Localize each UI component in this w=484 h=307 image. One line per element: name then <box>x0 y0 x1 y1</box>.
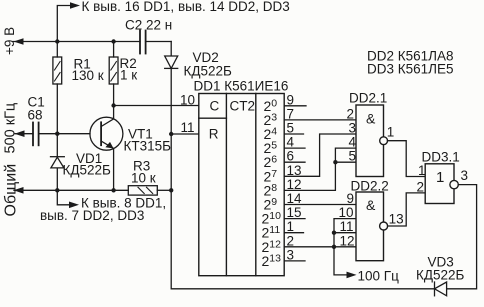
transistor VT1 <box>90 106 123 191</box>
wire DD3.1 output down to bottom rail <box>447 185 477 289</box>
node arrow to DD supply <box>70 2 80 9</box>
node junction VD2-R input <box>169 132 173 136</box>
svg-text:1: 1 <box>287 219 295 234</box>
pin labels DD2.1 <box>347 106 395 163</box>
capacitor C2 <box>140 31 171 54</box>
svg-text:&: & <box>366 111 376 127</box>
wire 2^6 pin6 stub <box>284 161 305 163</box>
svg-text:1: 1 <box>418 163 426 178</box>
svg-text:КД522Б: КД522Б <box>184 64 233 79</box>
svg-text:Общий: Общий <box>3 164 20 217</box>
svg-text:130 к: 130 к <box>72 68 104 83</box>
wire to DD1 pin 10 <box>114 105 199 107</box>
svg-text:11: 11 <box>340 219 354 234</box>
wire 2^5 pin4 stub <box>284 147 305 149</box>
capacitor C1 <box>15 123 90 146</box>
svg-text:4: 4 <box>287 135 295 150</box>
wire down to bottom rail <box>171 190 434 288</box>
wire 2^12 pin2 to DD2.2 pins 10,11,12 <box>284 246 356 248</box>
svg-text:12: 12 <box>287 177 302 192</box>
svg-text:2: 2 <box>417 179 425 194</box>
svg-text:КД522Б: КД522Б <box>63 163 112 178</box>
wire 2^8 pin12 to DD2.1 pins 4,5 <box>284 148 356 190</box>
svg-text:100 Гц: 100 Гц <box>358 269 400 284</box>
svg-text:+9 В: +9 В <box>2 27 17 55</box>
svg-text:68: 68 <box>28 108 43 123</box>
node ground arrow <box>14 187 24 194</box>
svg-text:К выв. 16 DD1, выв. 14 DD2, DD: К выв. 16 DD1, выв. 14 DD2, DD3 <box>82 0 290 14</box>
svg-text:CT2: CT2 <box>230 99 256 114</box>
node arrow 100Hz <box>347 272 357 279</box>
svg-text:DD2.1: DD2.1 <box>349 91 387 106</box>
svg-text:3: 3 <box>349 121 357 136</box>
svg-text:DD3 К561ЛЕ5: DD3 К561ЛЕ5 <box>367 61 454 76</box>
wire branch to pin8 label <box>57 190 69 205</box>
svg-text:6: 6 <box>287 149 295 164</box>
gate DD2.2 (4-input NAND) <box>356 192 388 261</box>
node junction DD2.2 pin11 <box>332 231 336 235</box>
wire 2^9 pin14 to DD2.2 pin9 <box>284 204 356 206</box>
svg-text:1: 1 <box>436 169 444 186</box>
svg-text:1 к: 1 к <box>120 68 137 83</box>
wire DD2.2 output to DD3.1 pin2 <box>388 193 426 226</box>
svg-text:10: 10 <box>339 205 354 220</box>
svg-text:10: 10 <box>180 93 195 108</box>
svg-text:DD3.1: DD3.1 <box>422 150 460 165</box>
svg-text:7: 7 <box>287 106 295 121</box>
svg-text:DD1 К561ИЕ16: DD1 К561ИЕ16 <box>194 79 289 94</box>
node 500kHz arrow <box>15 130 25 137</box>
svg-text:КТ315Б: КТ315Б <box>124 139 172 154</box>
wire +9V rail <box>13 41 140 43</box>
wire DD1 output stubs and routes <box>284 106 356 278</box>
svg-text:2: 2 <box>287 233 295 248</box>
resistor R1 <box>53 42 62 134</box>
svg-text:3: 3 <box>287 247 295 262</box>
resistor R3 <box>128 186 171 195</box>
node junction emitter <box>111 188 115 192</box>
wire 2^4 pin5 stub <box>284 133 303 135</box>
node junction R3 right <box>169 188 173 192</box>
svg-text:1: 1 <box>387 125 395 140</box>
wire 100Hz tap <box>334 247 348 275</box>
gate DD3.1 (NOR as inverter) <box>425 164 458 204</box>
node junction VD1 bottom <box>55 188 59 192</box>
pin output power-of-two labels DD1 <box>262 97 282 269</box>
svg-text:13: 13 <box>287 163 302 178</box>
wire branch to pin16 label <box>57 6 71 42</box>
gate DD2.1 (4-input NAND) <box>356 105 388 177</box>
wire 2^10 pin15 stub <box>284 218 305 220</box>
wire VD2 node down to R3 <box>170 134 172 190</box>
svg-text:12: 12 <box>340 233 355 248</box>
pin labels DD1 <box>180 93 255 142</box>
svg-text:9: 9 <box>287 92 295 107</box>
resistor R2 <box>109 42 118 106</box>
svg-text:&: & <box>366 197 376 213</box>
svg-text:С2 22 н: С2 22 н <box>125 18 172 33</box>
svg-text:13: 13 <box>389 212 404 227</box>
svg-text:15: 15 <box>287 205 302 220</box>
svg-text:5: 5 <box>287 121 295 136</box>
wire 2^3 pin7 to DD2.1 pin2 <box>284 119 356 121</box>
svg-text:C: C <box>210 99 220 114</box>
svg-text:10 к: 10 к <box>131 171 156 186</box>
wire 2^11 pin1 stub <box>284 232 303 234</box>
svg-text:3: 3 <box>461 168 469 183</box>
svg-text:4: 4 <box>349 135 357 150</box>
svg-text:500 кГц: 500 кГц <box>3 103 19 154</box>
wire DD2.1 output to DD3.1 pin1 <box>388 141 426 177</box>
svg-text:9: 9 <box>347 191 355 206</box>
wire 2^13 pin3 stub <box>284 260 305 262</box>
svg-text:14: 14 <box>287 191 303 206</box>
node junction DD2.1 pin5 <box>333 160 337 164</box>
svg-text:DD2.2: DD2.2 <box>351 179 389 194</box>
diode VD2 <box>165 42 178 135</box>
pin number labels DD1 outputs <box>287 92 303 262</box>
diode VD3 <box>435 282 447 296</box>
wire 2^0 pin9 stub <box>284 105 306 107</box>
pin labels DD2.2 <box>339 191 404 248</box>
node +9V arrow <box>14 38 24 45</box>
node junction R1 top <box>55 39 59 43</box>
wire ground rail <box>14 189 128 191</box>
svg-text:R: R <box>209 127 219 142</box>
node arrow to DD ground <box>69 202 79 209</box>
svg-text:выв. 7 DD2, DD3: выв. 7 DD2, DD3 <box>40 208 144 223</box>
node junction 2^12 output tap <box>332 245 336 249</box>
svg-text:5: 5 <box>349 149 357 164</box>
node junction collector-R2 <box>111 103 115 107</box>
wire 2^7 pin13 to DD2.1 pin3 <box>284 134 356 176</box>
IC DD1 K561IE16 counter box <box>199 94 284 276</box>
node junction base-R1-VD1 <box>55 132 59 136</box>
diode VD1 <box>51 134 65 191</box>
pin labels DD3.1 <box>417 163 469 194</box>
svg-text:11: 11 <box>181 120 195 135</box>
svg-text:2: 2 <box>347 106 355 121</box>
svg-text:КД522Б: КД522Б <box>416 268 465 283</box>
node junction R2 top <box>111 39 115 43</box>
wire to DD1 pin 11 <box>171 133 199 135</box>
